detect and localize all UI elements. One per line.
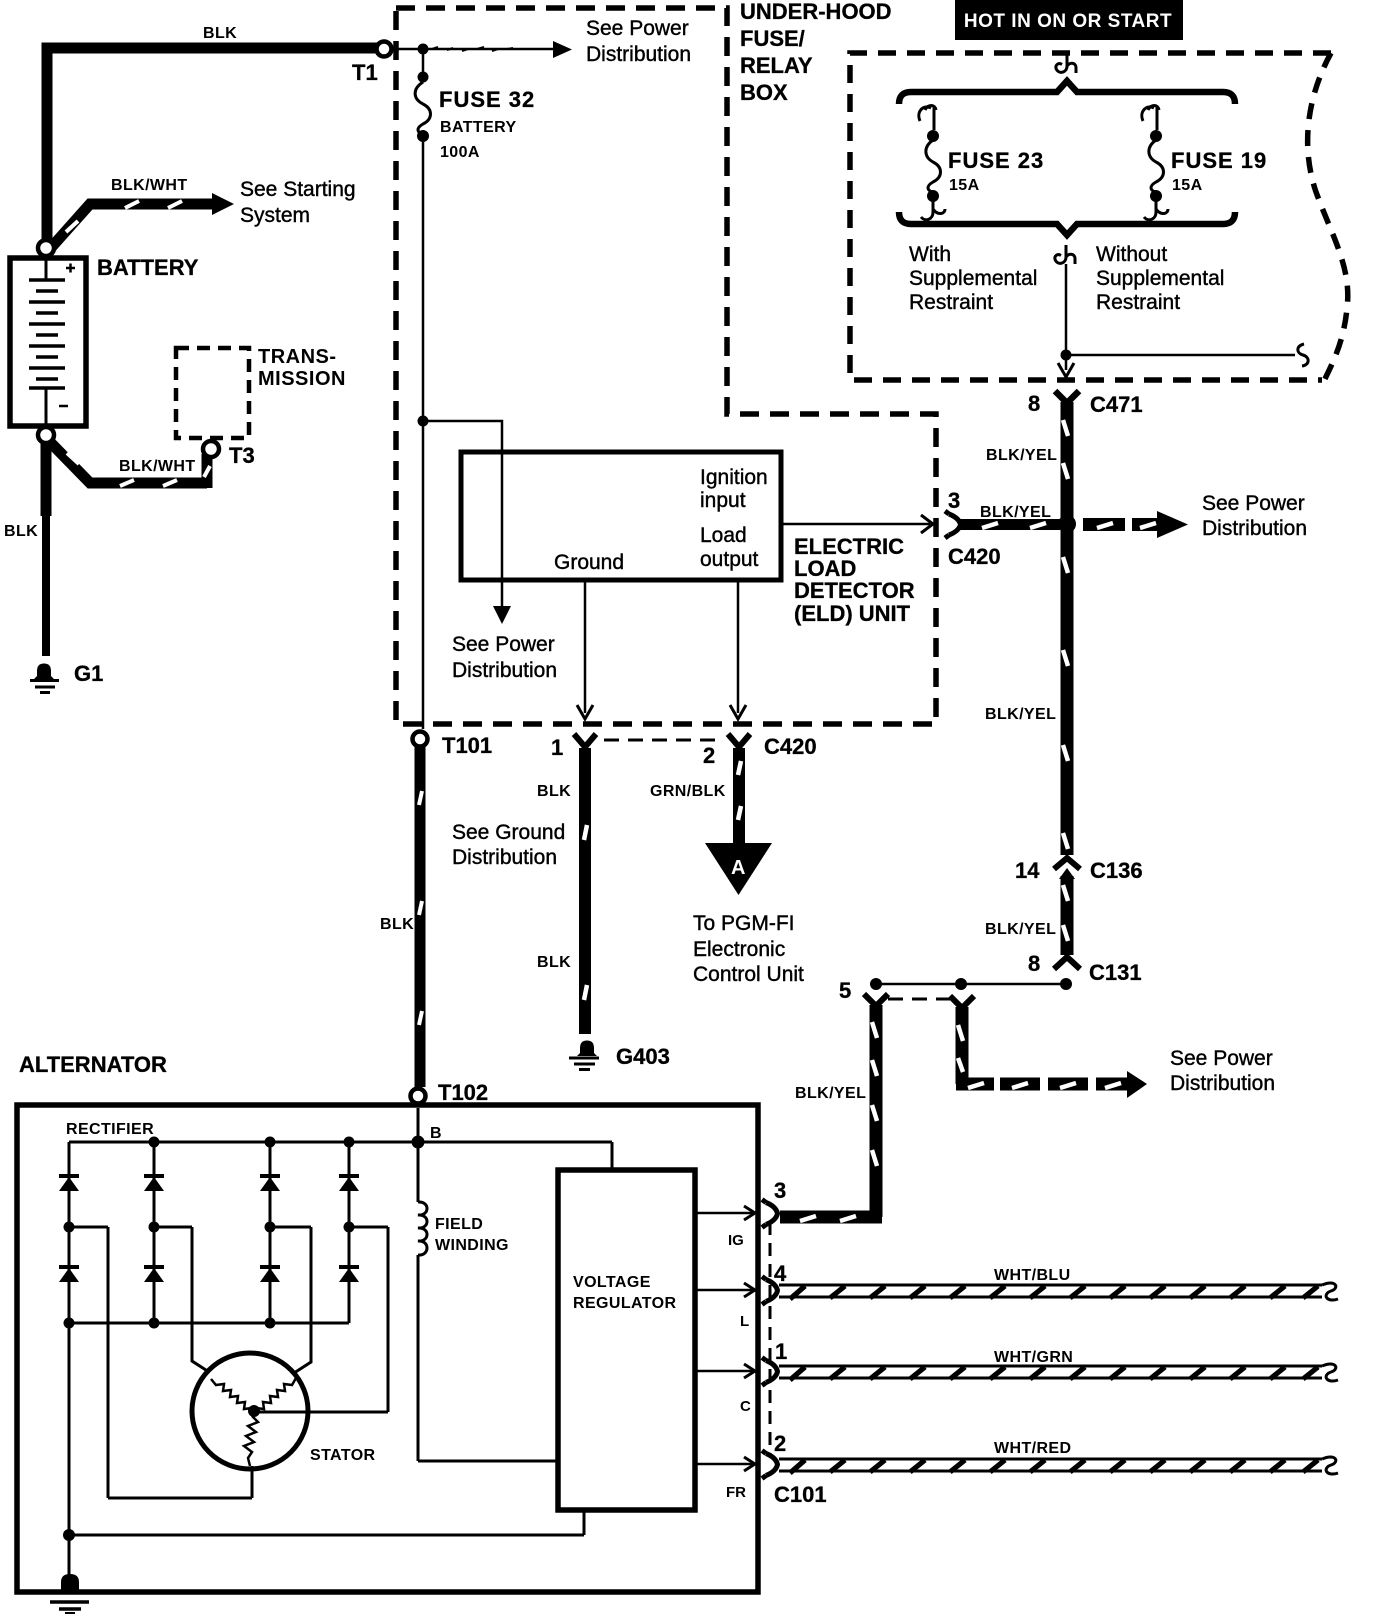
svg-text:BLK: BLK xyxy=(4,523,38,540)
hatch marks pin3 wire xyxy=(982,523,1046,528)
node battery negative terminal xyxy=(38,427,54,443)
svg-text:BLK/YEL: BLK/YEL xyxy=(985,706,1056,723)
battery xyxy=(10,258,86,426)
svg-text:STATOR: STATOR xyxy=(310,1447,376,1464)
wire ELD load output pin down xyxy=(737,580,740,713)
svg-text:FR: FR xyxy=(726,1484,746,1501)
svg-text:BLK: BLK xyxy=(537,783,571,800)
dashed link between 5 connectors xyxy=(888,998,950,1001)
wire BLK battery negative to ground G1 xyxy=(41,441,52,516)
connector C101 pin 1 xyxy=(762,1358,778,1386)
arrowhead see power distribution top xyxy=(553,41,572,58)
wire bottom return bus xyxy=(69,1510,584,1583)
wire BLK/YEL C136 to C131 xyxy=(1061,876,1074,955)
node bottom return dot xyxy=(63,1529,75,1541)
svg-text:A: A xyxy=(731,857,745,879)
wire T1 to power distribution xyxy=(392,48,556,51)
svg-text:L: L xyxy=(740,1313,749,1330)
diode D8 lower xyxy=(339,1267,359,1282)
svg-text:C420: C420 xyxy=(764,734,817,759)
arrow A to PGM-FI xyxy=(705,843,772,895)
wire phase 1 column1 to stator bottom xyxy=(69,1227,252,1498)
fuse 19 xyxy=(1142,106,1168,220)
svg-text:BLK/YEL: BLK/YEL xyxy=(980,504,1051,521)
wire phase 3 column3 to stator upper right xyxy=(270,1227,311,1373)
svg-text:Restraint: Restraint xyxy=(909,291,993,314)
svg-text:Restraint: Restraint xyxy=(1096,291,1180,314)
svg-text:BLK/WHT: BLK/WHT xyxy=(111,177,188,194)
svg-text:See Ground: See Ground xyxy=(452,821,565,844)
svg-text:FUSE/: FUSE/ xyxy=(740,26,805,51)
svg-text:C101: C101 xyxy=(774,1482,827,1507)
fuse box torn right edge xyxy=(1308,53,1348,381)
svg-text:C: C xyxy=(740,1398,751,1415)
hatch marks C136-C131 wire xyxy=(1063,885,1068,941)
wire BLK/WHT battery to starting system xyxy=(49,204,212,250)
wire diode column 1 xyxy=(68,1142,71,1323)
svg-text:C136: C136 xyxy=(1090,858,1143,883)
svg-text:RECTIFIER: RECTIFIER xyxy=(66,1121,154,1138)
svg-text:WHT/BLU: WHT/BLU xyxy=(994,1267,1071,1284)
hatch marks dashed bottom right xyxy=(1012,1083,1121,1088)
svg-text:BLK: BLK xyxy=(537,954,571,971)
svg-text:GRN/BLK: GRN/BLK xyxy=(650,783,726,800)
wire WHT/RED pin 2 xyxy=(779,1457,1338,1474)
svg-text:WINDING: WINDING xyxy=(435,1237,509,1254)
svg-text:BLK/YEL: BLK/YEL xyxy=(985,921,1056,938)
svg-text:G1: G1 xyxy=(74,661,103,686)
wire bottom bus xyxy=(69,1322,349,1325)
svg-text:RELAY: RELAY xyxy=(740,53,813,78)
wire VR pin IG xyxy=(695,1212,753,1215)
diode D3 upper xyxy=(260,1176,280,1191)
dashed wire to power distribution bottom right xyxy=(1000,1078,1128,1091)
wire VR pin FR xyxy=(695,1463,753,1466)
node junction T1 branch xyxy=(418,44,429,55)
terminal T1 xyxy=(377,42,392,57)
svg-text:output: output xyxy=(700,548,759,571)
svg-text:5: 5 xyxy=(839,978,851,1003)
arrowhead see starting system xyxy=(212,193,234,215)
node bottom bus dots xyxy=(64,1318,75,1329)
wire BLK pin1 to ground G403 xyxy=(579,748,591,1034)
svg-text:See Power: See Power xyxy=(586,17,689,40)
wire BLK/YEL 5 left down to alternator IG xyxy=(780,1005,882,1217)
connector C131 pin 8 xyxy=(1054,957,1080,969)
wire WHT/GRN pin 1 xyxy=(779,1364,1338,1381)
svg-text:BLK/WHT: BLK/WHT xyxy=(119,458,196,475)
wire BLK T101 to T102 xyxy=(415,747,426,1087)
svg-text:(ELD) UNIT: (ELD) UNIT xyxy=(794,601,911,626)
svg-text:FUSE 23: FUSE 23 xyxy=(948,148,1044,173)
transmission dashed box xyxy=(176,348,249,438)
under-hood fuse/relay box dashed outline xyxy=(396,8,936,724)
svg-text:Distribution: Distribution xyxy=(452,846,557,869)
wire ELD ignition input to pin 3 C420 xyxy=(781,523,930,526)
wire fuse to T101 xyxy=(422,421,425,729)
svg-text:4: 4 xyxy=(774,1261,787,1286)
svg-text:BATTERY: BATTERY xyxy=(97,255,199,280)
node junction fuse branch to ELD xyxy=(418,416,429,427)
svg-text:Supplemental: Supplemental xyxy=(1096,267,1224,290)
connector C471 pin 8 xyxy=(1055,391,1079,403)
node junction to S hook xyxy=(1061,350,1072,361)
hatch marks dashed wire xyxy=(1097,523,1156,528)
wire B stub T102 to bus xyxy=(417,1108,420,1142)
svg-text:FUSE 32: FUSE 32 xyxy=(439,87,535,112)
svg-text:B: B xyxy=(430,1125,442,1142)
connector C420 pin 3 xyxy=(945,511,961,538)
wire GRN/BLK pin2 down xyxy=(733,748,745,845)
hatch marks IG wire xyxy=(800,1022,877,1221)
node battery positive terminal xyxy=(38,240,54,256)
ground G403 xyxy=(569,1041,599,1070)
connector C420 pin 2 xyxy=(728,734,750,747)
svg-text:C471: C471 xyxy=(1090,392,1143,417)
node left link xyxy=(870,978,882,990)
hatch marks BLK T101 wire xyxy=(419,791,422,1025)
svg-text:With: With xyxy=(909,243,951,266)
svg-text:14: 14 xyxy=(1015,858,1040,883)
dashed link C101 pins xyxy=(769,1222,772,1455)
dashed link C420 pins 1-2 xyxy=(604,739,715,742)
svg-text:1: 1 xyxy=(775,1339,787,1364)
alternator box xyxy=(17,1105,758,1592)
svg-text:100A: 100A xyxy=(440,144,480,161)
svg-text:Electronic: Electronic xyxy=(693,938,785,961)
svg-text:T3: T3 xyxy=(229,443,255,468)
S hook wire end xyxy=(1298,344,1308,366)
node top bus dots xyxy=(149,1137,160,1148)
svg-text:WHT/GRN: WHT/GRN xyxy=(994,1349,1073,1366)
svg-text:T102: T102 xyxy=(438,1080,488,1105)
hatch marks BLK/WHT upper xyxy=(66,201,182,232)
svg-text:3: 3 xyxy=(948,488,960,513)
dashed wire junction to power distribution xyxy=(1083,518,1158,531)
field winding xyxy=(418,1142,558,1461)
connector C420 pin 1 xyxy=(574,734,596,747)
connector 5 right xyxy=(950,996,974,1008)
connector C101 pin 2 xyxy=(762,1451,778,1479)
svg-text:input: input xyxy=(700,489,746,512)
terminal T101 xyxy=(413,732,428,747)
ground G1 xyxy=(30,664,59,693)
svg-text:BLK/YEL: BLK/YEL xyxy=(986,447,1057,464)
svg-text:See Power: See Power xyxy=(452,633,555,656)
svg-text:1: 1 xyxy=(551,735,563,760)
diode D4 upper xyxy=(339,1176,359,1191)
svg-text:Without: Without xyxy=(1096,243,1167,266)
diode D7 lower xyxy=(260,1267,280,1282)
svg-text:IG: IG xyxy=(728,1232,744,1249)
wire WHT/BLU pin 4 xyxy=(779,1283,1338,1300)
svg-text:BATTERY: BATTERY xyxy=(440,119,517,136)
connector C101 pin 4 xyxy=(762,1277,778,1305)
svg-text:C420: C420 xyxy=(948,544,1001,569)
svg-text:G403: G403 xyxy=(616,1044,670,1069)
connector 5 left xyxy=(864,994,888,1006)
svg-text:BLK: BLK xyxy=(380,916,414,933)
svg-text:FUSE 19: FUSE 19 xyxy=(1171,148,1267,173)
connector C101 pin 3 xyxy=(762,1200,778,1228)
svg-text:Distribution: Distribution xyxy=(1202,517,1307,540)
svg-text:Supplemental: Supplemental xyxy=(909,267,1037,290)
svg-text:T1: T1 xyxy=(352,60,378,85)
wire VR pin C xyxy=(695,1370,753,1373)
wire neutral column4 to stator center xyxy=(256,1227,388,1412)
diode D2 upper xyxy=(144,1176,164,1191)
svg-text:System: System xyxy=(240,204,310,227)
arrowhead power distribution bottom right xyxy=(1127,1071,1147,1098)
svg-text:See Power: See Power xyxy=(1202,492,1305,515)
svg-text:ALTERNATOR: ALTERNATOR xyxy=(19,1052,167,1077)
hatch marks BLK ground wire xyxy=(584,825,587,1000)
svg-text:Distribution: Distribution xyxy=(586,43,691,66)
connector C136 pin 14 xyxy=(1054,858,1080,879)
node mid link xyxy=(955,978,967,990)
svg-text:MISSION: MISSION xyxy=(258,368,346,390)
svg-text:See Power: See Power xyxy=(1170,1047,1273,1070)
wire phase 2 column2 to stator upper left xyxy=(154,1227,209,1372)
stator xyxy=(192,1353,308,1469)
diode D1 upper xyxy=(59,1176,79,1191)
diode D5 lower xyxy=(59,1267,79,1282)
wire diode column 3 xyxy=(269,1142,272,1323)
svg-text:UNDER-HOOD: UNDER-HOOD xyxy=(740,0,892,24)
wire column1 to bottom bus join xyxy=(68,1323,71,1535)
HOT IN ON OR START banner xyxy=(955,0,1183,40)
fuse 32 xyxy=(415,49,430,421)
svg-text:Distribution: Distribution xyxy=(452,659,557,682)
fuse box dashed outline xyxy=(850,53,1331,380)
svg-text:Distribution: Distribution xyxy=(1170,1072,1275,1095)
wire top bus xyxy=(69,1142,612,1170)
svg-text:BLK/YEL: BLK/YEL xyxy=(795,1085,866,1102)
wire BLK/YEL pin3 to junction xyxy=(960,519,1060,530)
svg-text:TRANS-: TRANS- xyxy=(258,346,337,368)
fuse 23 xyxy=(919,106,945,220)
svg-text:To PGM-FI: To PGM-FI xyxy=(693,912,795,935)
svg-text:2: 2 xyxy=(774,1431,786,1456)
wire BLK/WHT battery negative to T3 xyxy=(49,441,207,488)
wire diode column 2 xyxy=(153,1142,156,1323)
terminal T3 xyxy=(203,441,219,457)
hatch marks BLK/YEL column xyxy=(1063,420,1068,849)
svg-text:T101: T101 xyxy=(442,733,492,758)
voltage regulator box xyxy=(558,1170,695,1510)
svg-text:See Starting: See Starting xyxy=(240,178,356,201)
svg-text:VOLTAGE: VOLTAGE xyxy=(573,1274,651,1291)
wire BLK/YEL 5 right to power distribution xyxy=(956,1007,994,1084)
svg-text:REGULATOR: REGULATOR xyxy=(573,1295,676,1312)
svg-text:Load: Load xyxy=(700,524,747,547)
svg-text:C131: C131 xyxy=(1089,960,1142,985)
wire branch into ELD box with down arrow xyxy=(423,421,502,607)
node middle dots xyxy=(64,1222,75,1233)
node C131 junction xyxy=(1060,978,1072,990)
hook symbol below brace xyxy=(1055,245,1075,264)
arrowhead see power distribution right xyxy=(1157,511,1188,538)
wire link line pin 5 xyxy=(876,983,1066,986)
svg-text:FIELD: FIELD xyxy=(435,1216,483,1233)
svg-text:BLK: BLK xyxy=(203,25,237,42)
svg-text:DETECTOR: DETECTOR xyxy=(794,578,915,603)
bottom bus brace xyxy=(899,212,1235,235)
svg-text:Control Unit: Control Unit xyxy=(693,963,804,986)
node junction C420 wire and column xyxy=(1058,515,1076,533)
svg-text:3: 3 xyxy=(774,1178,786,1203)
svg-text:Ignition: Ignition xyxy=(700,466,768,489)
svg-text:2: 2 xyxy=(703,743,715,768)
svg-text:8: 8 xyxy=(1028,391,1040,416)
ELD unit box xyxy=(461,452,781,580)
wire VR pin L xyxy=(695,1289,753,1292)
svg-text:8: 8 xyxy=(1028,951,1040,976)
svg-text:15A: 15A xyxy=(1172,177,1203,194)
svg-text:HOT IN ON OR START: HOT IN ON OR START xyxy=(964,11,1172,32)
svg-text:Ground: Ground xyxy=(554,551,624,574)
top bus brace xyxy=(899,81,1235,104)
wire fuse output down to C471 xyxy=(1065,264,1068,370)
svg-text:15A: 15A xyxy=(949,177,980,194)
wire BLK battery positive to terminal T1 xyxy=(47,48,377,243)
hatch marks BLK/WHT lower xyxy=(67,453,210,486)
wire diode column 4 xyxy=(348,1142,351,1323)
wire BLK/YEL C471 to C136 xyxy=(1061,402,1074,855)
hatch marks 5 right wire xyxy=(958,1025,984,1088)
wire ELD ground pin down xyxy=(584,580,587,713)
wire junction to S hook right xyxy=(1066,354,1295,357)
tick marks on power distribution wire xyxy=(432,47,513,51)
diode D6 lower xyxy=(144,1267,164,1282)
hatch marks GRN/BLK wire xyxy=(738,761,741,820)
svg-text:BOX: BOX xyxy=(740,80,788,105)
hook symbol top center xyxy=(1056,54,1076,73)
svg-text:WHT/RED: WHT/RED xyxy=(994,1440,1071,1457)
ground alternator case xyxy=(50,1574,89,1614)
terminal T102 xyxy=(411,1089,426,1104)
